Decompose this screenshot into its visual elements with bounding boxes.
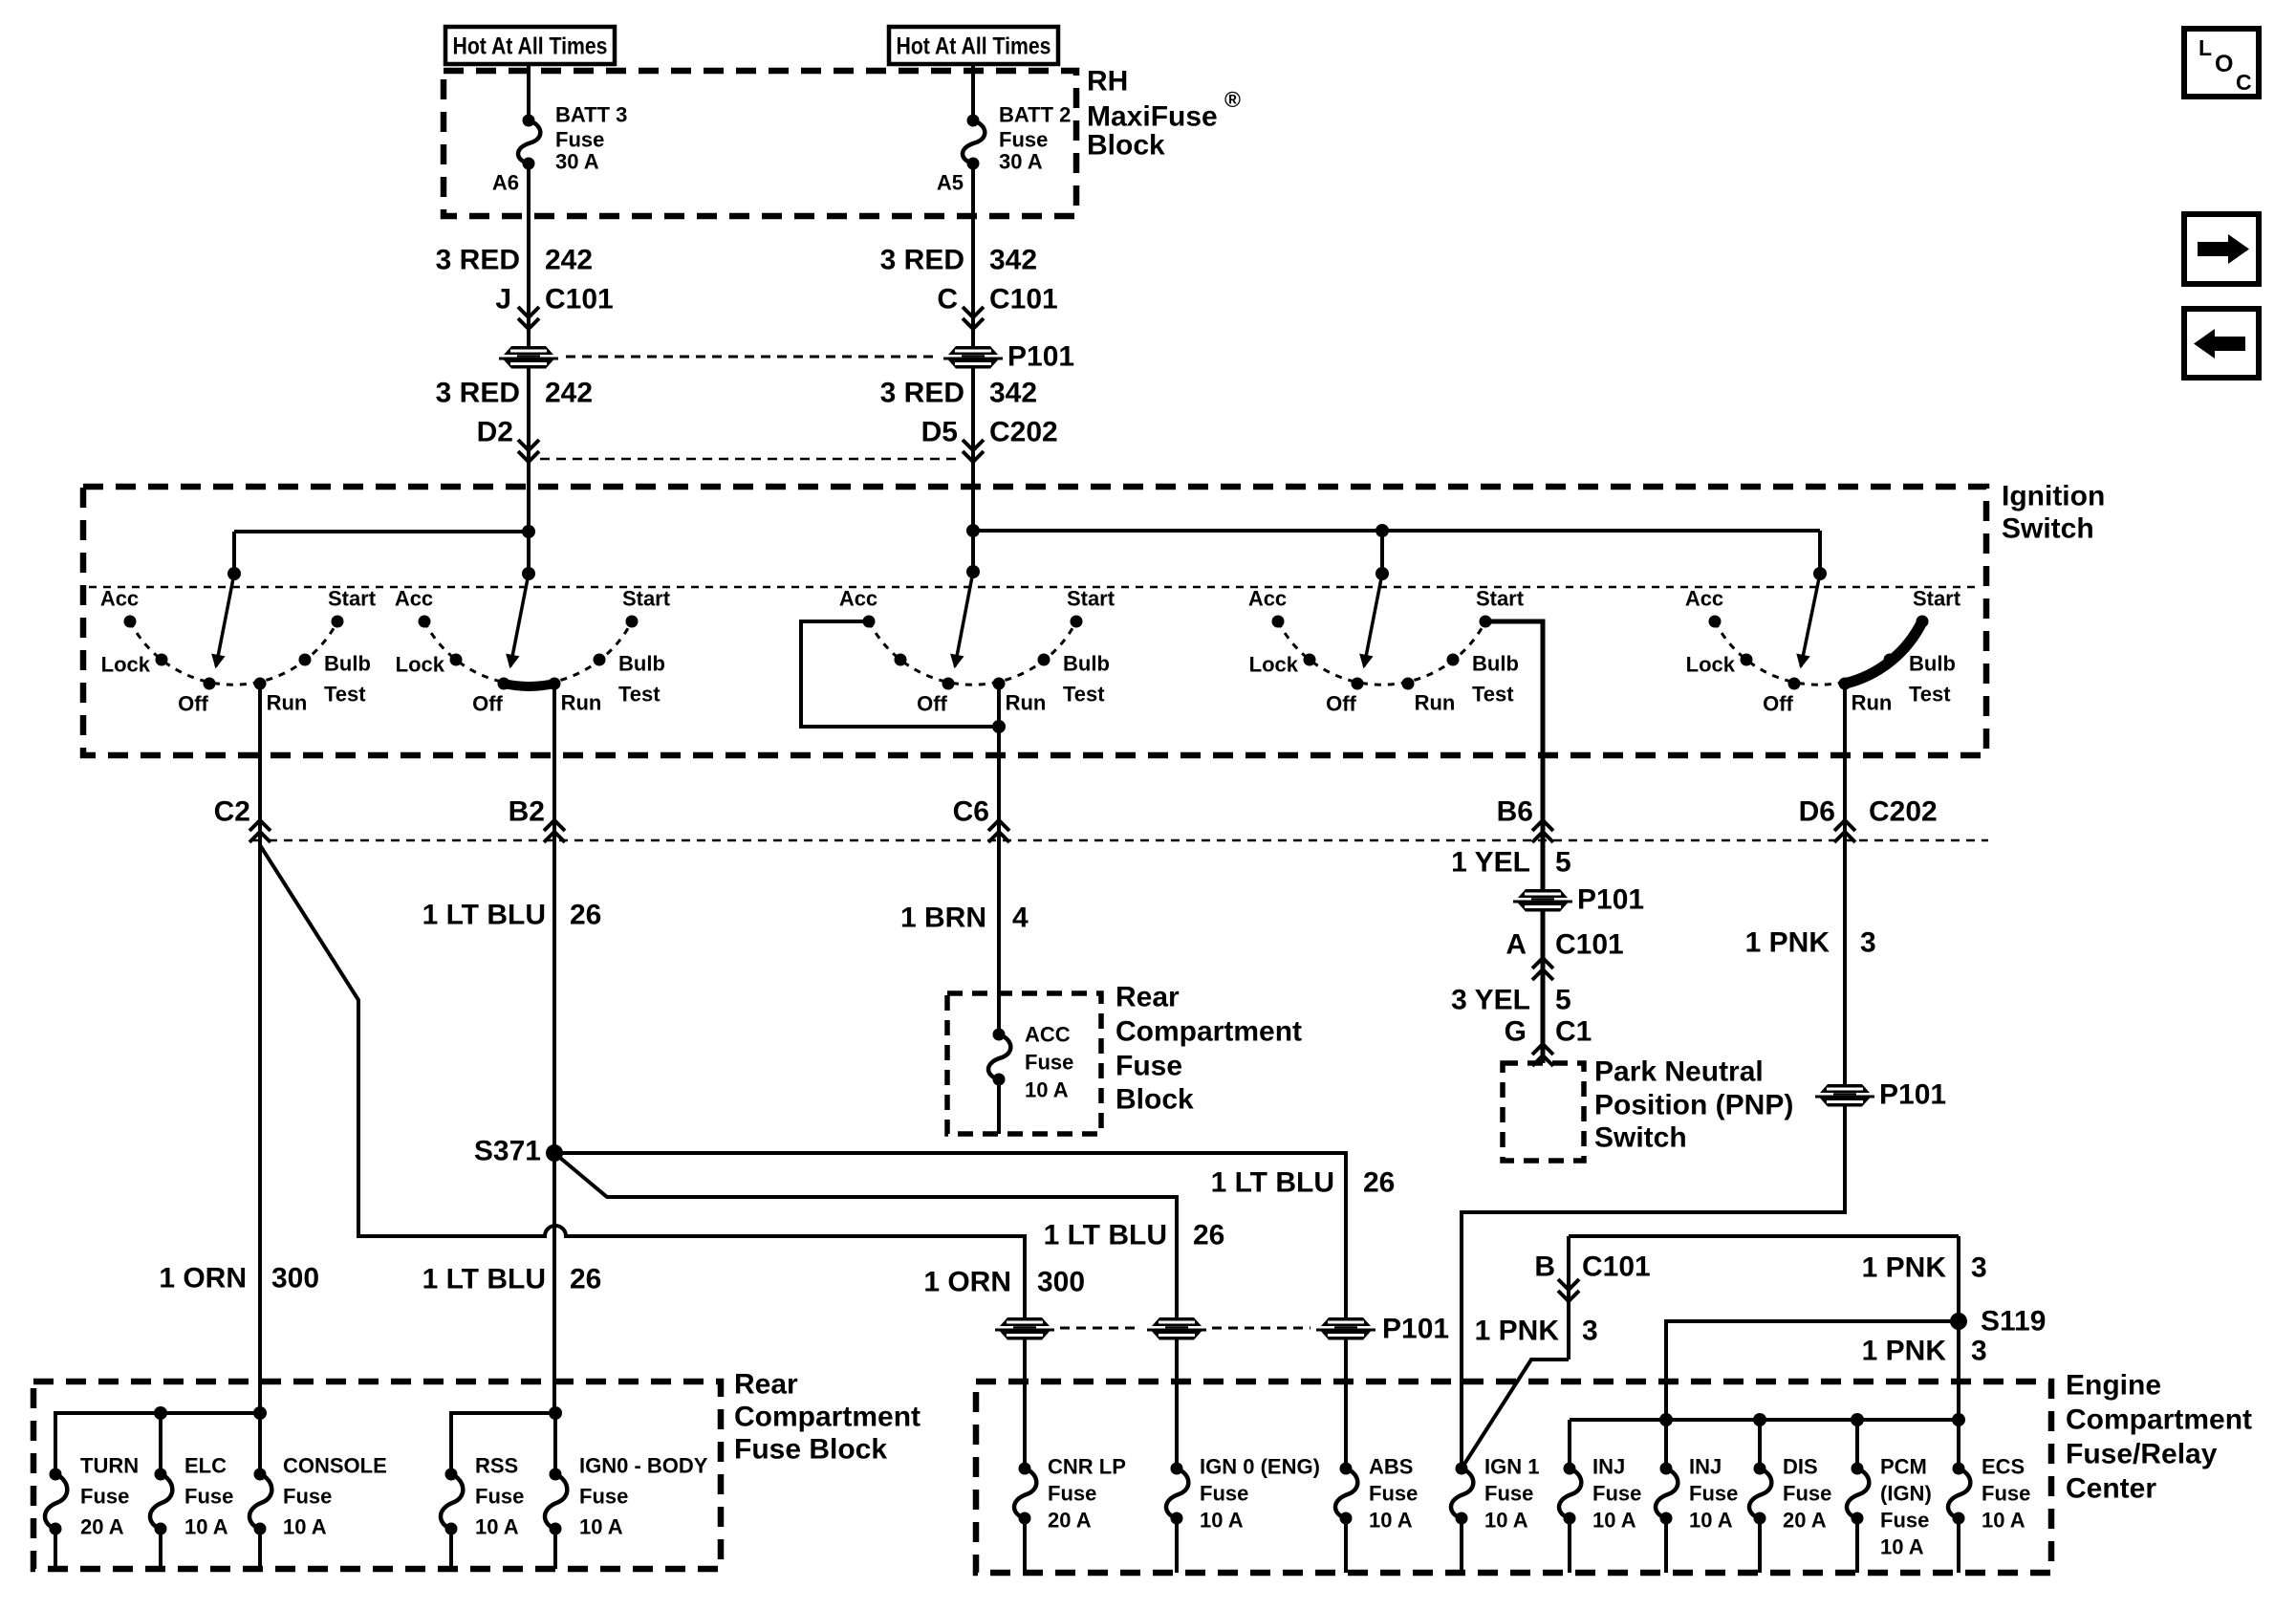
svg-text:10 A: 10 A [283, 1515, 327, 1539]
svg-text:26: 26 [570, 900, 601, 931]
splice S119 [1950, 1313, 1967, 1330]
wire ACC fuse to block edge [997, 1079, 1001, 1134]
svg-text:10 A: 10 A [1484, 1509, 1528, 1533]
connector C202 row dashed line [253, 839, 1988, 842]
svg-text:C: C [2236, 70, 2252, 95]
svg-text:Fuse/Relay: Fuse/Relay [2066, 1439, 2218, 1470]
svg-text:3 RED: 3 RED [880, 378, 964, 409]
svg-text:3: 3 [1860, 927, 1876, 959]
svg-text:Rear: Rear [734, 1369, 798, 1401]
svg-text:B2: B2 [509, 796, 545, 828]
svg-text:Compartment: Compartment [2066, 1404, 2252, 1436]
svg-text:Rear: Rear [1116, 982, 1180, 1013]
svg-text:Acc: Acc [1685, 587, 1723, 611]
wire pole5 Run to D6 (circuit 3) [1462, 684, 1845, 1469]
svg-text:CNR LP: CNR LP [1048, 1455, 1126, 1479]
pass-through grommet P101 (D6 wire) [1815, 1084, 1874, 1107]
svg-text:20 A: 20 A [1048, 1509, 1092, 1533]
svg-text:Fuse: Fuse [184, 1485, 233, 1509]
svg-text:A5: A5 [937, 171, 964, 195]
svg-text:Fuse: Fuse [1592, 1482, 1641, 1506]
right arrow navigation box [2184, 214, 2259, 284]
svg-text:TURN: TURN [80, 1454, 139, 1478]
junction dots on engine fuse bus [1659, 1413, 1673, 1426]
wire S119 vertical [1957, 1236, 1960, 1469]
svg-text:D5: D5 [921, 417, 958, 448]
svg-text:Fuse: Fuse [1982, 1482, 2030, 1506]
ignition switch pole 2 - position contact dots [419, 616, 431, 628]
svg-text:1 PNK: 1 PNK [1745, 927, 1830, 959]
ignition switch pole 4 - dashed position arc [1278, 621, 1485, 685]
wire B C101 net horizontal [1569, 1234, 1959, 1238]
svg-text:Fuse Block: Fuse Block [734, 1434, 887, 1466]
svg-text:C101: C101 [545, 284, 614, 315]
junction dot on 242 feed wire [522, 525, 535, 538]
svg-text:342: 342 [989, 245, 1037, 276]
svg-text:Test: Test [1472, 683, 1514, 707]
fuse IGN0-BODY 10A [550, 1469, 562, 1481]
svg-text:S119: S119 [1981, 1306, 2046, 1338]
svg-text:Start: Start [622, 587, 671, 611]
svg-text:Position (PNP): Position (PNP) [1594, 1090, 1793, 1121]
fuse RSS 10A [445, 1469, 458, 1481]
wire S371 branch to IGN 0 ENG circuit [554, 1153, 1177, 1469]
feed wire to poles 4 and 5 [973, 529, 1820, 533]
svg-text:Bulb: Bulb [1909, 652, 1956, 676]
svg-text:ECS: ECS [1982, 1455, 2025, 1479]
svg-text:G: G [1505, 1016, 1527, 1048]
svg-text:Fuse: Fuse [1116, 1051, 1182, 1082]
wire pole2 Run to B2 and down (circuit 26) [552, 684, 556, 1413]
svg-text:Run: Run [1006, 691, 1047, 715]
svg-text:Fuse: Fuse [1025, 1051, 1073, 1075]
fuse ELC 10A [155, 1469, 167, 1481]
pole 2 pivot dot [522, 567, 535, 580]
svg-text:10 A: 10 A [1200, 1509, 1244, 1533]
pass-through grommet P101 (CNR LP) [995, 1317, 1054, 1340]
svg-text:30 A: 30 A [999, 150, 1043, 174]
svg-text:300: 300 [1037, 1267, 1085, 1298]
svg-text:INJ: INJ [1689, 1455, 1722, 1479]
svg-text:Acc: Acc [100, 587, 139, 611]
svg-text:Bulb: Bulb [324, 652, 371, 676]
svg-text:1 LT BLU: 1 LT BLU [422, 900, 546, 931]
svg-text:Start: Start [1067, 587, 1116, 611]
svg-text:(IGN): (IGN) [1880, 1482, 1932, 1506]
label box: Hot At All Times (left) [445, 27, 615, 64]
svg-text:Acc: Acc [1248, 587, 1287, 611]
ignition switch pole 3 - position contact dots [863, 616, 876, 628]
pole 1 wiper arrow [216, 574, 234, 666]
wire bus to DIS fuse [1758, 1420, 1762, 1469]
feed wire to pole 1 [234, 530, 529, 533]
pole 3 Acc loop wire [801, 621, 999, 727]
pole 4 Start contact output wire [1485, 621, 1543, 1063]
svg-text:O: O [2215, 51, 2233, 77]
svg-text:1 LT BLU: 1 LT BLU [1044, 1220, 1167, 1251]
svg-text:C2: C2 [214, 796, 250, 828]
svg-text:INJ: INJ [1592, 1455, 1625, 1479]
fuse INJ in engine fuse center [1564, 1463, 1576, 1475]
svg-text:1 LT BLU: 1 LT BLU [422, 1264, 546, 1295]
svg-text:1 ORN: 1 ORN [159, 1263, 247, 1295]
svg-text:26: 26 [570, 1264, 601, 1295]
svg-text:C101: C101 [989, 284, 1058, 315]
svg-text:Lock: Lock [101, 653, 151, 677]
svg-text:Park Neutral: Park Neutral [1594, 1056, 1764, 1088]
svg-text:Fuse: Fuse [1689, 1482, 1738, 1506]
wire BATT2 fuse to ignition switch (circuit 342) [971, 163, 975, 572]
svg-text:C101: C101 [1555, 929, 1624, 961]
svg-text:Fuse: Fuse [1783, 1482, 1831, 1506]
svg-text:Fuse: Fuse [283, 1485, 332, 1509]
svg-text:Fuse: Fuse [1200, 1482, 1248, 1506]
pole 3 wiper arrow [955, 572, 973, 666]
svg-text:Bulb: Bulb [1063, 652, 1110, 676]
svg-text:Fuse: Fuse [555, 128, 604, 152]
ignition switch pole 5 - dashed position arc [1715, 621, 1922, 685]
svg-text:1 PNK: 1 PNK [1862, 1252, 1947, 1284]
svg-text:3: 3 [1582, 1316, 1598, 1347]
svg-text:Hot At All Times: Hot At All Times [897, 33, 1051, 60]
svg-text:C202: C202 [989, 417, 1058, 448]
svg-text:Run: Run [1852, 691, 1893, 715]
svg-text:242: 242 [545, 378, 593, 409]
svg-text:C101: C101 [1582, 1251, 1651, 1283]
svg-text:Lock: Lock [396, 653, 445, 677]
svg-text:RSS: RSS [475, 1454, 518, 1478]
svg-text:30 A: 30 A [555, 150, 599, 174]
ignition switch pole 4 - position contact dots [1272, 616, 1285, 628]
svg-text:242: 242 [545, 245, 593, 276]
svg-text:Center: Center [2066, 1473, 2156, 1505]
junction dot C2 wire at fuse bus [253, 1406, 267, 1420]
svg-text:Off: Off [1763, 692, 1793, 716]
svg-text:1 PNK: 1 PNK [1862, 1336, 1947, 1367]
wire from left Hot At All Times into MaxiFuse block [527, 64, 531, 120]
pass-through grommet P101 (left) [499, 346, 558, 369]
svg-text:10 A: 10 A [579, 1515, 623, 1539]
ignition switch pole 2 - dashed position arc [424, 621, 632, 685]
svg-text:Engine: Engine [2066, 1370, 2161, 1402]
svg-text:Bulb: Bulb [618, 652, 665, 676]
svg-text:Fuse: Fuse [999, 128, 1048, 152]
svg-text:B: B [1534, 1251, 1555, 1283]
svg-text:10 A: 10 A [475, 1515, 519, 1539]
dashed links of bottom P101 row [1060, 1327, 1141, 1330]
ignition switch pole 3 - dashed position arc [869, 621, 1076, 685]
svg-text:Fuse: Fuse [1484, 1482, 1533, 1506]
svg-text:Lock: Lock [1686, 653, 1736, 677]
svg-text:Fuse: Fuse [475, 1485, 524, 1509]
svg-text:Run: Run [267, 691, 308, 715]
svg-text:10 A: 10 A [1689, 1509, 1733, 1533]
Ignition Switch dashed box [83, 487, 1986, 755]
svg-text:IGN 1: IGN 1 [1484, 1455, 1539, 1479]
svg-text:Switch: Switch [2002, 513, 2094, 545]
wire pole1 Run to C2 and down (circuit 300) [258, 684, 262, 1413]
svg-text:10 A: 10 A [1880, 1535, 1924, 1559]
svg-text:1 BRN: 1 BRN [900, 903, 986, 934]
fuse CONSOLE 10A [254, 1469, 267, 1481]
svg-text:26: 26 [1363, 1167, 1395, 1199]
fuse IGN 0 (ENG) in engine fuse center [1171, 1463, 1183, 1475]
svg-text:Run: Run [1415, 691, 1456, 715]
svg-text:A: A [1505, 929, 1527, 961]
svg-text:Off: Off [1326, 692, 1356, 716]
pole 5 pivot dot [1813, 567, 1827, 580]
pass-through grommet P101 (ABS) [1316, 1317, 1375, 1340]
svg-text:B6: B6 [1497, 796, 1533, 828]
wire BATT3 fuse to ignition switch (circuit 242) [527, 163, 531, 574]
svg-text:Fuse: Fuse [1048, 1482, 1096, 1506]
svg-text:3 RED: 3 RED [436, 245, 520, 276]
pole 4 pivot dot [1375, 567, 1389, 580]
wire C2 diagonal branch to CNR LP circuit (1 ORN 300) [260, 845, 1025, 1469]
svg-text:10 A: 10 A [184, 1515, 228, 1539]
fuse TURN 20A [50, 1469, 62, 1481]
svg-text:C: C [937, 284, 958, 315]
junction dot ELC [154, 1406, 167, 1420]
svg-text:Lock: Lock [1249, 653, 1299, 677]
svg-text:P101: P101 [1382, 1314, 1449, 1345]
svg-text:Start: Start [1913, 587, 1961, 611]
svg-text:Acc: Acc [839, 587, 877, 611]
svg-text:Acc: Acc [395, 587, 433, 611]
svg-text:Compartment: Compartment [734, 1402, 921, 1433]
fuse IGN 1 in engine fuse center [1456, 1463, 1468, 1475]
svg-text:MaxiFuse: MaxiFuse [1087, 101, 1218, 133]
ignition switch pole 5 - position contact dots [1709, 616, 1722, 628]
svg-text:3 RED: 3 RED [880, 245, 964, 276]
Rear Compartment Fuse Block dashed box [33, 1382, 721, 1569]
fuse DIS in engine fuse center [1754, 1463, 1766, 1475]
svg-text:®: ® [1224, 87, 1241, 112]
pole 1 pivot dot [227, 567, 241, 580]
svg-text:Fuse: Fuse [1880, 1509, 1929, 1533]
Park Neutral Position Switch dashed box [1503, 1063, 1584, 1161]
svg-text:20 A: 20 A [1783, 1509, 1827, 1533]
pass-through grommet P101 (IGN 0) [1147, 1317, 1206, 1340]
svg-text:C6: C6 [953, 796, 989, 828]
svg-text:10 A: 10 A [1982, 1509, 2025, 1533]
svg-text:J: J [495, 284, 511, 315]
svg-text:Ignition: Ignition [2002, 481, 2105, 512]
pole 4 wiper arrow [1364, 574, 1382, 666]
svg-text:Fuse: Fuse [579, 1485, 628, 1509]
svg-text:3: 3 [1971, 1336, 1987, 1367]
svg-text:1 PNK: 1 PNK [1475, 1316, 1560, 1347]
pole 2 wiper arrow [510, 574, 529, 666]
svg-text:Start: Start [1476, 587, 1525, 611]
fuse ACC 10A [993, 1029, 1006, 1041]
svg-text:ABS: ABS [1369, 1455, 1413, 1479]
svg-text:IGN 0 (ENG): IGN 0 (ENG) [1200, 1455, 1320, 1479]
svg-text:Run: Run [561, 691, 602, 715]
left arrow navigation box [2184, 309, 2259, 378]
RH MaxiFuse Block dashed box [444, 71, 1076, 216]
svg-text:Fuse: Fuse [1369, 1482, 1418, 1506]
fuse ECS in engine fuse center [1953, 1463, 1965, 1475]
svg-text:Bulb: Bulb [1472, 652, 1519, 676]
svg-text:Switch: Switch [1594, 1122, 1687, 1154]
svg-text:DIS: DIS [1783, 1455, 1818, 1479]
svg-text:Hot At All Times: Hot At All Times [453, 33, 608, 60]
svg-text:20 A: 20 A [80, 1515, 124, 1539]
svg-text:10 A: 10 A [1592, 1509, 1636, 1533]
svg-text:Compartment: Compartment [1116, 1016, 1302, 1048]
wire bus to PCM fuse [1855, 1420, 1859, 1469]
svg-text:5: 5 [1555, 847, 1571, 879]
engine fuse feed bus [1570, 1418, 1959, 1422]
svg-text:ACC: ACC [1025, 1023, 1071, 1047]
svg-text:Off: Off [917, 692, 947, 716]
svg-text:3: 3 [1971, 1252, 1987, 1284]
svg-text:10 A: 10 A [1025, 1078, 1069, 1102]
svg-text:A6: A6 [492, 171, 519, 195]
junction dot IGN0-BODY [549, 1406, 562, 1420]
svg-text:300: 300 [271, 1263, 319, 1295]
svg-text:1 LT BLU: 1 LT BLU [1211, 1167, 1334, 1199]
svg-text:L: L [2199, 35, 2212, 60]
label box: Hot At All Times (right) [889, 27, 1058, 64]
junction dot Acc loop to Run output [992, 720, 1006, 733]
pass-through grommet P101 (right) [943, 346, 1003, 369]
svg-text:Block: Block [1116, 1084, 1194, 1116]
svg-text:4: 4 [1012, 903, 1029, 934]
dashed guide line inside ignition switch [89, 586, 1981, 589]
svg-text:PCM: PCM [1880, 1455, 1927, 1479]
svg-text:RH: RH [1087, 66, 1128, 98]
svg-text:C1: C1 [1555, 1016, 1592, 1048]
svg-text:Test: Test [618, 683, 661, 707]
svg-text:BATT 3: BATT 3 [555, 103, 627, 127]
wire S371 branch to ABS circuit (top) [554, 1153, 1346, 1469]
svg-text:BATT 2: BATT 2 [999, 103, 1071, 127]
fuse PCM in engine fuse center [1852, 1463, 1864, 1475]
svg-text:P101: P101 [1879, 1079, 1946, 1111]
pass-through grommet P101 (B6 wire) [1513, 889, 1572, 912]
svg-text:P101: P101 [1577, 884, 1644, 916]
svg-text:5: 5 [1555, 985, 1571, 1016]
splice S371 [546, 1144, 563, 1162]
Rear Compartment Fuse Block (ACC) dashed box [947, 993, 1101, 1134]
junction dot at pole 4 feed [1375, 524, 1389, 537]
svg-text:Start: Start [328, 587, 377, 611]
svg-text:Block: Block [1087, 130, 1165, 162]
dashed link between P101 grommets [566, 356, 938, 359]
svg-text:1 YEL: 1 YEL [1451, 847, 1530, 879]
wire pole3 Run/Acc to C6 (circuit 4) [997, 684, 1001, 1034]
ignition switch pole 1 - position contact dots [124, 616, 137, 628]
svg-text:Test: Test [1063, 683, 1105, 707]
fuse CNR LP in engine fuse center [1019, 1463, 1031, 1475]
svg-text:1 ORN: 1 ORN [923, 1267, 1011, 1298]
rear fuse bus TURN/ELC/CONSOLE [55, 1413, 260, 1474]
fuse BATT 2 30A [967, 115, 980, 127]
svg-text:IGN0 - BODY: IGN0 - BODY [579, 1454, 708, 1478]
rear fuse bus RSS/IGN0-BODY [451, 1413, 555, 1474]
fuse ABS in engine fuse center [1340, 1463, 1353, 1475]
junction dot on 342 feed wire [966, 524, 980, 537]
fuse BATT 3 30A [523, 115, 535, 127]
wire down through connector C101 cavity B [1567, 1236, 1570, 1360]
wire jog and diagonal to IGN 1 fuse [1462, 1360, 1569, 1469]
svg-text:S371: S371 [474, 1136, 541, 1167]
svg-text:10 A: 10 A [1369, 1509, 1413, 1533]
wire from right Hot At All Times into MaxiFuse block [971, 64, 975, 120]
LOC legend box [2184, 29, 2259, 97]
svg-text:Off: Off [472, 692, 503, 716]
svg-text:Test: Test [324, 683, 366, 707]
svg-text:ELC: ELC [184, 1454, 227, 1478]
pole 2 closed contact Off-Run (thick arc) [504, 684, 554, 686]
Engine Compartment Fuse/Relay Center dashed box [976, 1382, 2051, 1573]
dashed link of connector C202 row [540, 458, 962, 461]
svg-text:D6: D6 [1799, 796, 1835, 828]
wire S119 branch to INJ fuse [1666, 1321, 1959, 1469]
rear fuse output wires to block edge [54, 1529, 57, 1569]
fuse INJ in engine fuse center [1660, 1463, 1673, 1475]
svg-text:3 RED: 3 RED [436, 378, 520, 409]
pole 3 pivot dot [966, 565, 980, 578]
svg-text:3 YEL: 3 YEL [1451, 985, 1530, 1016]
pole 5 closed contact Run-Start (thick arc) [1845, 621, 1922, 684]
svg-text:CONSOLE: CONSOLE [283, 1454, 387, 1478]
svg-text:C202: C202 [1869, 796, 1938, 828]
svg-text:342: 342 [989, 378, 1037, 409]
svg-text:P101: P101 [1007, 341, 1074, 373]
svg-text:Off: Off [178, 692, 208, 716]
svg-text:D2: D2 [477, 417, 513, 448]
svg-text:Fuse: Fuse [80, 1485, 129, 1509]
svg-text:26: 26 [1193, 1220, 1224, 1251]
svg-text:Test: Test [1909, 683, 1951, 707]
pole 5 wiper arrow [1801, 574, 1820, 666]
ignition switch pole 1 - dashed position arc [130, 621, 337, 685]
